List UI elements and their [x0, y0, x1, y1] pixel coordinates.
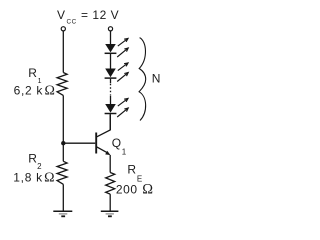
svg-text:6,2 kΩ: 6,2 kΩ — [14, 83, 55, 98]
svg-text:R1: R1 — [28, 66, 41, 85]
svg-text:RE: RE — [127, 162, 142, 183]
svg-text:Q1: Q1 — [112, 136, 127, 157]
svg-text:R2: R2 — [28, 151, 42, 171]
svg-text:N: N — [152, 71, 161, 85]
svg-text:200 Ω: 200 Ω — [116, 182, 153, 198]
svg-text:1,8 kΩ: 1,8 kΩ — [13, 170, 54, 185]
svg-text:VCC = 12 V: VCC = 12 V — [57, 8, 119, 26]
